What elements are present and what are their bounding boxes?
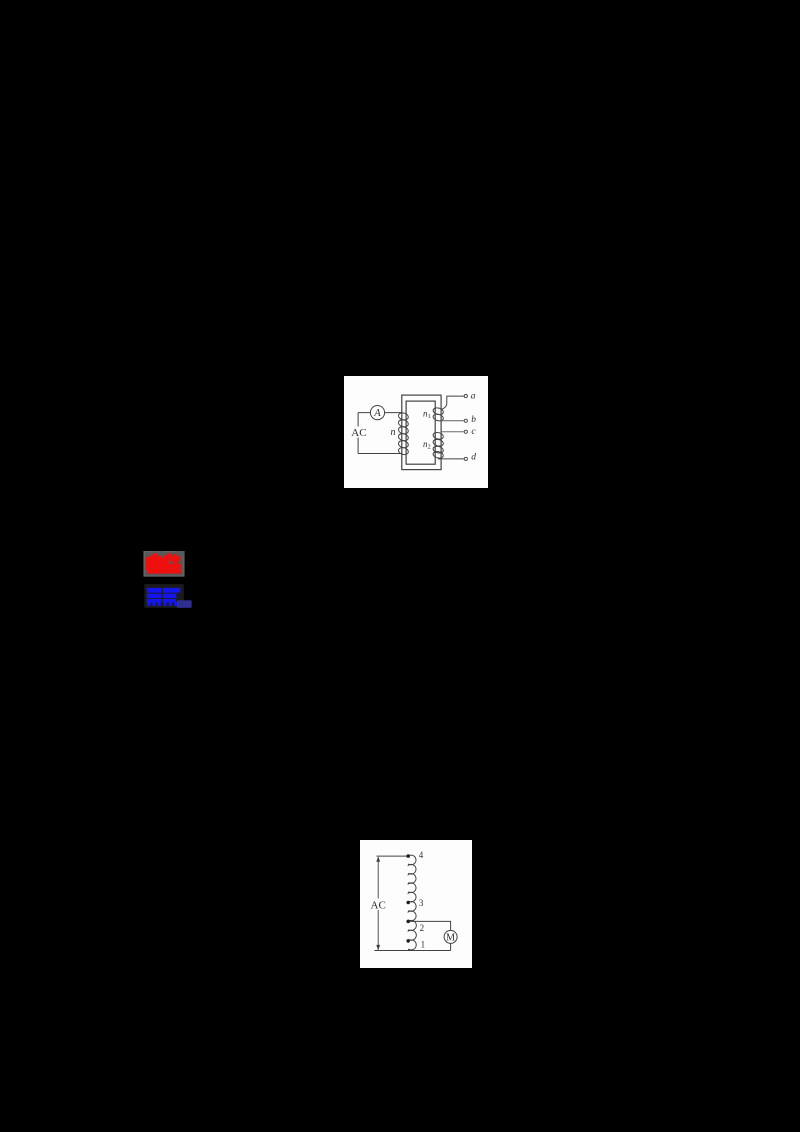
tap 3 dot <box>406 901 410 905</box>
svg-text:n: n <box>391 427 396 438</box>
arrowhead down <box>376 945 380 950</box>
svg-text:a: a <box>471 391 476 401</box>
secondary coil n2 <box>432 431 444 459</box>
ammeter A1 circle <box>370 406 384 420</box>
transformer core inner rectangle <box>406 401 435 464</box>
wire from n2 top to terminal c <box>441 431 464 433</box>
svg-text:d: d <box>471 453 476 463</box>
AC dimension line lower <box>377 910 379 951</box>
wire AC left vertical lower <box>357 438 359 454</box>
svg-text:AC: AC <box>351 427 366 439</box>
wire AC bottom <box>358 453 402 455</box>
wire top to tap 4 <box>377 855 409 857</box>
arrowhead up <box>376 857 380 862</box>
red button gray notches <box>145 552 184 576</box>
svg-text:AC: AC <box>371 899 386 911</box>
svg-text:2: 2 <box>420 923 425 933</box>
wire AC top <box>358 412 402 414</box>
figure 2 white panel <box>360 840 472 968</box>
terminal d circle <box>464 457 467 460</box>
svg-text:4: 4 <box>419 850 424 860</box>
svg-text:M: M <box>446 932 455 943</box>
secondary coil n1 <box>432 407 444 422</box>
blue answer link glyphs <box>147 588 180 606</box>
wire from n1 top to terminal a <box>442 396 465 409</box>
svg-text:1: 1 <box>421 940 426 950</box>
terminal b circle <box>464 419 467 422</box>
autotransformer winding <box>408 855 416 950</box>
wire from n1 bottom to terminal b <box>441 420 464 422</box>
tap 1 dot <box>406 939 410 943</box>
svg-text:A: A <box>373 408 381 419</box>
navy block after blue text <box>177 600 192 608</box>
terminal c circle <box>464 430 467 433</box>
svg-text:b: b <box>471 415 476 425</box>
blue answer link background <box>144 584 183 608</box>
figure 1 white panel <box>344 376 488 488</box>
red video button background <box>144 552 184 577</box>
tap 2 dot <box>406 920 410 924</box>
tap 4 dot <box>406 854 410 858</box>
terminal a circle <box>464 395 467 398</box>
bottom wire <box>374 950 450 952</box>
wire motor bottom <box>450 943 452 950</box>
wire AC left vertical upper <box>357 413 359 427</box>
wire tap2 to motor <box>410 921 451 930</box>
transformer core outer rectangle <box>402 395 441 470</box>
wire from n2 bottom to terminal d <box>438 458 464 460</box>
red video button glyphs <box>146 554 181 574</box>
motor M circle <box>444 930 457 943</box>
primary coil n <box>398 412 409 456</box>
AC dimension line upper <box>377 857 379 899</box>
svg-text:3: 3 <box>419 898 424 908</box>
